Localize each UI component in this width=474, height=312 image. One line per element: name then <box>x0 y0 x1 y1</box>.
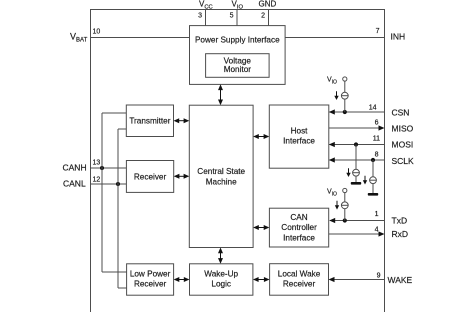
svg-text:CSN: CSN <box>392 108 410 118</box>
svg-text:INH: INH <box>391 32 406 42</box>
svg-text:Interface: Interface <box>283 233 315 242</box>
junction CSN pull-up <box>343 110 347 114</box>
wire current source to TxD line <box>344 209 346 221</box>
arrow Central State Machine to Host Interface (bidirectional) <box>253 134 269 139</box>
arrow Wake-Up Logic to Local Wake Receiver (bidirectional) <box>253 277 270 282</box>
svg-text:12: 12 <box>93 177 101 184</box>
wire CANH to Transmitter <box>102 112 126 114</box>
arrowhead CSN into Host Interface <box>329 109 335 114</box>
junction CANL <box>116 182 120 186</box>
svg-text:Power Supply Interface: Power Supply Interface <box>195 35 280 44</box>
current direction arrow (TxD) <box>335 201 339 210</box>
block Wake-Up Logic <box>190 264 253 295</box>
wire CANL vertical bus <box>117 129 119 288</box>
current direction arrow (MOSI) <box>346 168 350 177</box>
svg-text:9: 9 <box>377 273 381 280</box>
svg-text:13: 13 <box>93 160 101 167</box>
wire VIO terminal to current source (CSN) <box>344 81 346 92</box>
svg-text:4: 4 <box>375 227 379 234</box>
wire SCLK junction to current source <box>372 160 374 177</box>
svg-text:GND: GND <box>259 0 277 9</box>
wire current source to CSN line <box>344 99 346 112</box>
wire CANL to Transmitter <box>118 128 126 130</box>
current source I1 (CSN pull-up) <box>341 92 348 99</box>
svg-text:WAKE: WAKE <box>388 275 413 285</box>
svg-text:Receiver: Receiver <box>134 172 167 181</box>
block Local Wake Receiver <box>270 264 329 296</box>
current direction arrow (SCLK) <box>363 176 367 185</box>
wire TxD to CAN Controller Interface <box>330 220 385 222</box>
terminal VIO (CSN pull-up) <box>343 77 347 81</box>
svg-text:Low Power: Low Power <box>130 270 171 279</box>
junction SCLK pull-down <box>371 158 375 162</box>
svg-text:SCLK: SCLK <box>392 156 415 166</box>
svg-text:Machine: Machine <box>206 177 237 186</box>
svg-text:RxD: RxD <box>392 229 409 239</box>
wire INH from Power Supply Interface <box>285 37 384 39</box>
svg-text:MOSI: MOSI <box>392 140 414 150</box>
arrow Central State Machine to CAN Controller Interface (bidirectional) <box>253 225 269 230</box>
pin 3 VCC tick <box>205 10 207 27</box>
junction MOSI pull-down <box>354 142 358 146</box>
wire MOSI junction to current source <box>355 145 357 170</box>
svg-text:14: 14 <box>369 105 377 112</box>
svg-text:10: 10 <box>93 29 101 36</box>
svg-text:Logic: Logic <box>211 280 231 289</box>
wire VIO terminal to current source (TxD) <box>344 193 346 202</box>
svg-text:7: 7 <box>376 28 380 35</box>
block Central State Machine <box>189 105 253 247</box>
svg-text:Monitor: Monitor <box>224 65 252 74</box>
svg-text:CANH: CANH <box>63 163 87 173</box>
chip boundary <box>91 10 385 312</box>
wire MISO from Host Interface <box>329 127 384 129</box>
arrowhead SCLK into Host Interface <box>329 157 335 162</box>
pin 2 GND tick <box>268 10 270 27</box>
block Power Supply Interface <box>190 26 286 85</box>
svg-text:5: 5 <box>230 13 234 20</box>
block CAN Controller Interface <box>269 208 328 247</box>
svg-text:Transmitter: Transmitter <box>129 117 170 126</box>
arrow Receiver to Central State Machine (bidirectional) <box>174 174 190 179</box>
arrow Low Power Receiver to Wake-Up Logic (bidirectional) <box>174 277 190 282</box>
current source I2 (MOSI pull-down) <box>353 169 360 176</box>
wire CANL to Receiver <box>91 183 127 185</box>
svg-text:11: 11 <box>373 136 380 143</box>
block Transmitter <box>126 105 173 137</box>
svg-text:Receiver: Receiver <box>283 280 316 289</box>
pin 5 VIO tick <box>236 10 238 27</box>
svg-text:CAN: CAN <box>290 213 307 222</box>
wire CANH vertical bus <box>101 113 103 272</box>
terminal VIO (TxD pull-up) <box>343 188 347 192</box>
svg-text:Host: Host <box>291 127 309 136</box>
svg-text:TxD: TxD <box>392 216 408 226</box>
block Host Interface <box>269 105 329 168</box>
arrow Power Supply Interface to Central State Machine (bidirectional) <box>218 84 223 105</box>
arrowhead WAKE into Local Wake Receiver <box>329 277 335 282</box>
current direction arrow (CSN) <box>334 91 338 100</box>
wire WAKE to Local Wake Receiver <box>330 279 385 281</box>
junction TxD pull-up <box>343 218 347 222</box>
svg-text:Controller: Controller <box>281 223 317 232</box>
block Low Power Receiver <box>127 264 174 295</box>
arrowhead RxD out <box>379 231 385 236</box>
block Voltage Monitor <box>206 54 270 78</box>
wire SCLK to Host Interface <box>330 159 385 161</box>
svg-text:Interface: Interface <box>283 137 315 146</box>
wire CSN to Host Interface <box>330 111 385 113</box>
current source I4 (TxD pull-up) <box>341 202 348 209</box>
svg-text:2: 2 <box>261 13 265 20</box>
wire CANH to Low Power Receiver <box>102 271 127 273</box>
svg-text:Wake-Up: Wake-Up <box>204 270 238 279</box>
arrow Transmitter to Central State Machine (bidirectional) <box>174 118 190 123</box>
svg-text:CANL: CANL <box>63 179 86 189</box>
ground (SCLK pull-down) <box>368 193 378 196</box>
svg-text:6: 6 <box>375 120 379 127</box>
svg-text:1: 1 <box>375 211 379 218</box>
wire CANH to Receiver <box>91 167 127 169</box>
svg-text:MISO: MISO <box>392 124 414 134</box>
wire CANL to Low Power Receiver <box>118 287 127 289</box>
arrowhead TxD into CAN Controller Interface <box>329 218 335 223</box>
wire current source to ground (SCLK) <box>372 184 374 193</box>
wire RxD from CAN Controller Interface <box>329 233 384 235</box>
svg-text:Local Wake: Local Wake <box>278 270 321 279</box>
svg-text:Receiver: Receiver <box>134 280 167 289</box>
block Receiver <box>126 161 173 193</box>
svg-text:3: 3 <box>198 13 202 20</box>
current source I3 (SCLK pull-down) <box>370 177 377 184</box>
arrowhead MOSI into Host Interface <box>329 142 335 147</box>
junction CANH <box>100 166 104 170</box>
svg-text:8: 8 <box>375 152 379 159</box>
ground (MOSI pull-down) <box>351 182 361 185</box>
wire VBAT to Power Supply Interface <box>91 37 190 39</box>
svg-text:Central State: Central State <box>197 167 245 176</box>
wire MOSI to Host Interface <box>330 144 385 146</box>
arrowhead MISO out <box>379 125 385 130</box>
arrow Central State Machine to Wake-Up Logic (bidirectional) <box>218 248 223 264</box>
wire current source to ground (MOSI) <box>355 176 357 182</box>
